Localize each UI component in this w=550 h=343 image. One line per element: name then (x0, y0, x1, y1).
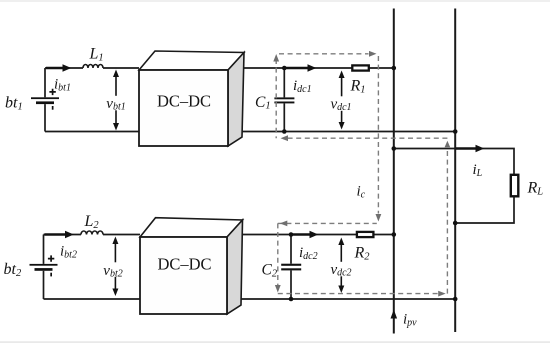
dashed wire: module1 top horizontal (279, 51, 377, 57)
wire: circuit1 top (inductor to box) (103, 67, 139, 69)
wire: circuit2 output top (box to R2) (227, 234, 356, 236)
dashed wire: module2 top horizontal (278, 221, 377, 227)
dashed wire: module2 bottom horizontal (278, 291, 446, 297)
node: bus2/load bottom junction (453, 221, 458, 226)
node: C1 bottom junction (282, 129, 287, 134)
inductor L2 (81, 231, 103, 235)
node: bus1/load junction (392, 146, 397, 151)
arrow i_dc1 (284, 64, 316, 71)
op-box U1 DC-DC converter (top) (139, 51, 244, 146)
wire: circuit2 output bottom (box to bus2) (227, 298, 455, 300)
dashed wire: module1 left vertical (273, 54, 279, 138)
resistor R1 (352, 65, 369, 70)
dashed wire: module1 bottom horizontal (281, 135, 448, 141)
node: bus2/circuit1 bottom junction (453, 129, 458, 134)
page edge top (0, 0, 550, 2)
dashed wire: i_c vertical (376, 56, 382, 222)
arrow i_bt1 (46, 64, 71, 71)
arrow i_dc2 (292, 231, 319, 238)
arrow v_bt2 (102, 237, 126, 297)
wire: battery bt1 left vertical (bottom part) (44, 104, 46, 131)
wire: load bottom (RL to bus2) (455, 197, 514, 224)
capacitor C2 bottom lead (290, 270, 292, 299)
dashed wire: module2 left vertical (275, 223, 281, 292)
capacitor C2 (281, 264, 301, 271)
node: C2 bottom junction (289, 297, 294, 302)
bus 2 (negative) (454, 9, 456, 333)
wire: battery bt2 left vertical (bottom part) (43, 271, 45, 299)
wire: circuit2 top (battery to inductor) (44, 234, 82, 236)
capacitor C1 bottom lead (283, 103, 285, 131)
node: bus2/circuit2 bottom junction (453, 297, 458, 302)
arrow v_dc2 (329, 238, 354, 294)
dashed wire: right vertical feedback (445, 141, 451, 294)
wire: circuit1 output bottom (box to bus2) (228, 131, 455, 133)
arrow v_bt1 (105, 70, 129, 131)
capacitor C1 top lead (283, 68, 285, 97)
wire: circuit2 bottom (44, 298, 141, 300)
battery bt2 (30, 255, 58, 276)
capacitor C2 top lead (290, 235, 292, 264)
wire: circuit1 output top (box to R1) (228, 67, 352, 69)
arrow i_L (456, 145, 484, 152)
resistor RL (511, 175, 519, 197)
wire: circuit2 output top (R2 to bus1) (373, 234, 394, 236)
bus 1 (positive) (393, 9, 395, 334)
op-box U2 DC-DC converter (bottom) (140, 218, 243, 314)
wire: load top (bus1 to RL) (394, 149, 514, 175)
wire: battery bt2 left vertical (top part) (43, 235, 45, 264)
wire: circuit2 top (inductor to box) (103, 234, 140, 236)
wire: battery bt1 left vertical (top part) (44, 68, 46, 97)
wire: circuit1 top (battery to inductor) (45, 67, 83, 69)
resistor R2 (357, 232, 374, 237)
arrow v_dc1 (330, 71, 354, 130)
node: C1 top junction (282, 66, 287, 71)
page edge bottom (0, 341, 550, 343)
node: C2 top junction (289, 232, 294, 237)
battery bt1 (31, 89, 59, 110)
wire: circuit1 bottom (45, 131, 139, 133)
svg-text:DC–DC: DC–DC (157, 254, 211, 273)
wire: circuit1 output top (R1 to bus1) (369, 67, 394, 69)
node: bus1/R2 junction (392, 232, 397, 237)
node: bus1/R1 junction (392, 66, 397, 71)
arrow i_pv on bus1 (391, 310, 398, 319)
inductor L1 (83, 65, 103, 69)
capacitor C1 (274, 97, 294, 103)
arrow i_bt2 (45, 231, 74, 238)
svg-text:DC–DC: DC–DC (157, 91, 211, 110)
